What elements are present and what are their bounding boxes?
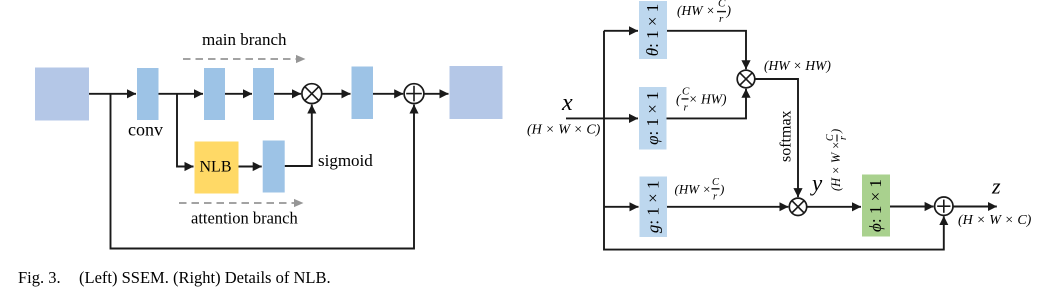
svg-text:y: y [810,171,823,196]
svg-text:softmax: softmax [778,110,795,162]
svg-text:Fig. 3.: Fig. 3. [18,268,61,287]
svg-text:r: r [713,192,718,203]
svg-text:NLB: NLB [200,159,232,176]
svg-text:(H × W × C): (H × W × C) [527,123,601,138]
svg-text:C: C [712,177,720,188]
svg-text:C: C [718,0,726,10]
svg-text:): ) [726,3,732,18]
svg-text:C: C [825,134,836,141]
svg-text:main branch: main branch [202,30,287,49]
svg-text:g: 1 × 1: g: 1 × 1 [644,181,663,234]
svg-text:r: r [719,13,724,25]
svg-text:sigmoid: sigmoid [318,151,373,170]
svg-text:ϕ: 1 × 1: ϕ: 1 × 1 [866,179,885,232]
svg-text:(H × W ×: (H × W × [829,141,843,191]
svg-text:z: z [991,174,1001,199]
svg-text:(Left) SSEM. (Right) Details o: (Left) SSEM. (Right) Details of NLB. [79,268,331,287]
svg-text:): ) [829,129,843,134]
svg-text:× HW): × HW) [689,92,727,107]
svg-text:r: r [838,136,849,140]
svg-text:conv: conv [128,120,163,140]
svg-text:(H × W × C): (H × W × C) [958,213,1032,228]
svg-text:): ) [719,182,724,197]
svg-text:(HW ×: (HW × [677,3,715,18]
svg-text:φ: 1 × 1: φ: 1 × 1 [643,91,662,144]
svg-text:θ: 1 × 1: θ: 1 × 1 [643,4,662,56]
svg-text:(HW × HW): (HW × HW) [764,58,831,73]
svg-text:x: x [561,90,573,116]
svg-text:attention branch: attention branch [191,209,299,228]
svg-text:(HW ×: (HW × [675,182,712,197]
